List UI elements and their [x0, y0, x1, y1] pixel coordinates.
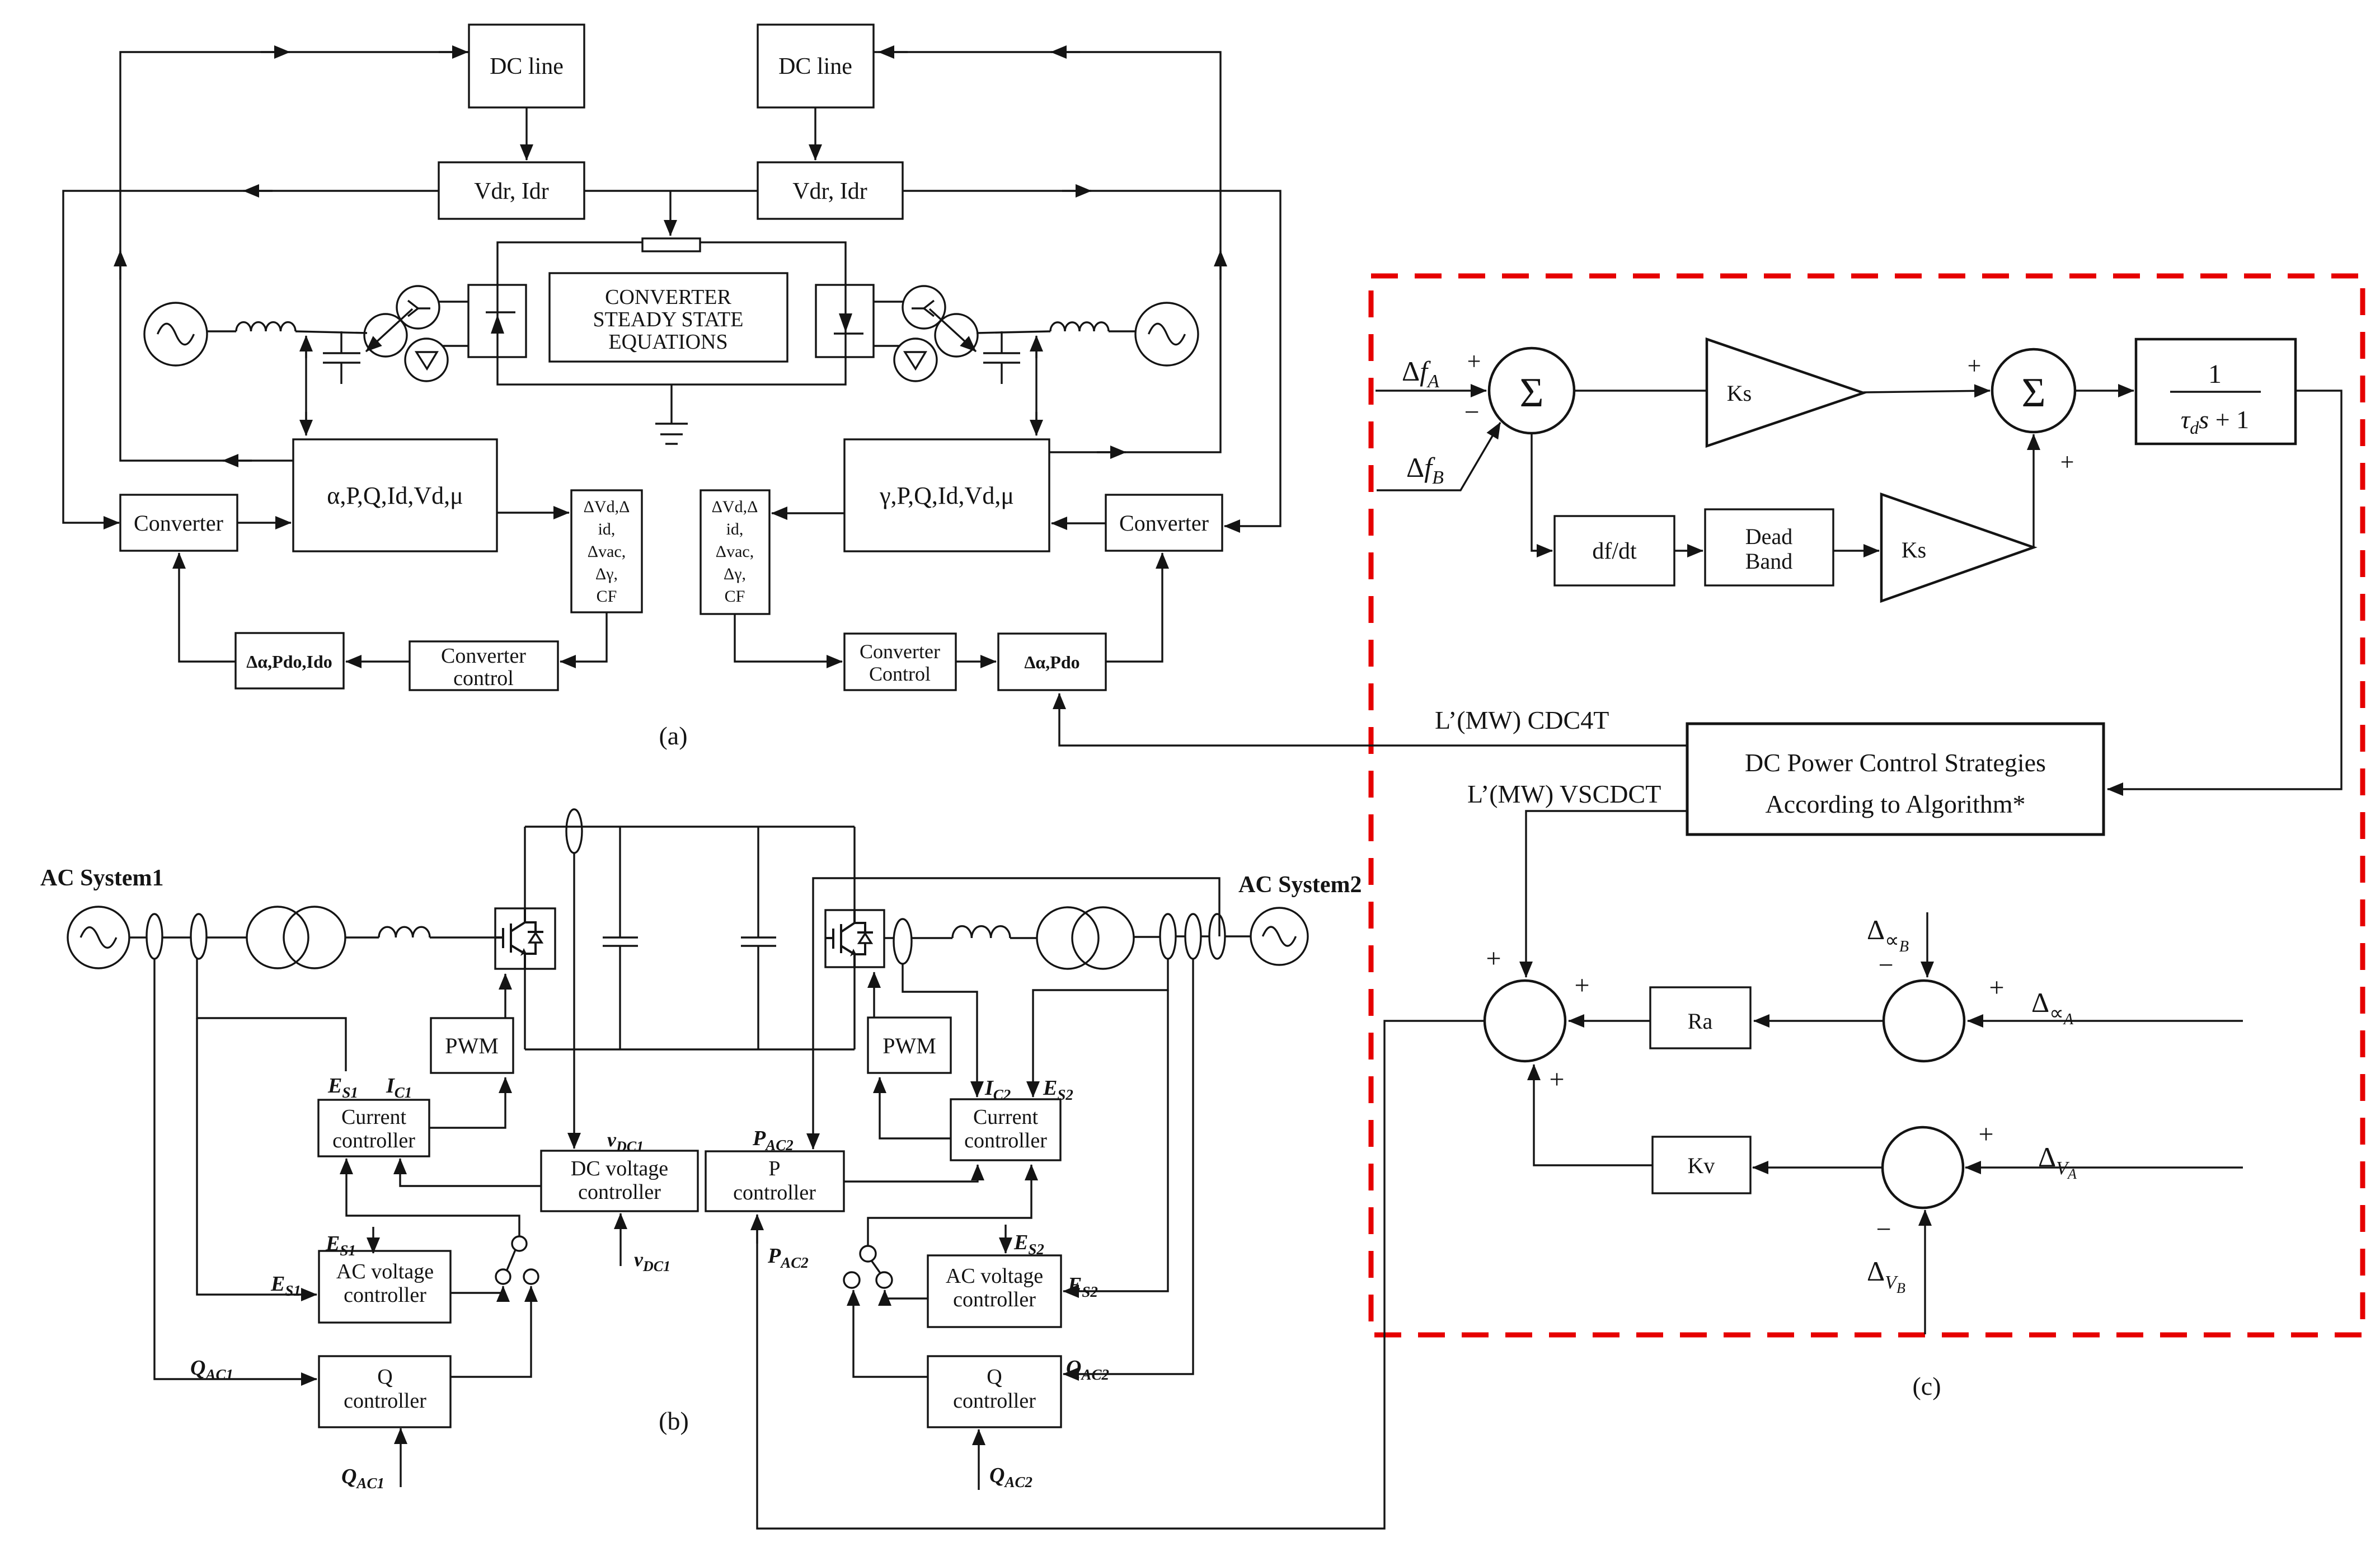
svg-text:Kv: Kv — [1688, 1153, 1715, 1178]
summing circle alpha inputs — [1884, 981, 1964, 1061]
wire S1 to gain Ks upper — [1574, 390, 1706, 391]
wire Current controller 1 to PWM 1 — [429, 1077, 505, 1128]
wire Q_AC1 from bus tap to Q controller 1 — [154, 959, 317, 1379]
block Vdr, Idr (rectifier side) — [439, 162, 584, 219]
svg-text:+: + — [1467, 348, 1481, 375]
svg-text:controller: controller — [964, 1129, 1047, 1152]
valve bridge 2 (thyristor, inverter) — [816, 285, 874, 357]
svg-text:+: + — [1968, 352, 1982, 379]
block Converter (rectifier) — [120, 495, 237, 551]
svg-text:Current: Current — [341, 1105, 407, 1129]
wire Current controller 2 to PWM 2 — [880, 1077, 951, 1138]
svg-text:PWM: PWM — [445, 1033, 499, 1058]
block AC voltage controller 1 — [319, 1251, 450, 1323]
wire E_S1 measurement to Current controller 1 — [197, 959, 346, 1071]
svg-text:ΔVd,Δ: ΔVd,Δ — [584, 498, 630, 516]
block Dead Band — [1705, 509, 1833, 585]
wire Q_AC1 reference stub — [400, 1428, 401, 1487]
block delta alpha,Pdo — [998, 634, 1106, 690]
wire VSC1 to DC bus top — [524, 827, 525, 908]
transformer T2 (section b) — [1037, 907, 1099, 969]
svg-text:Control: Control — [869, 663, 931, 685]
wire VSC2 to DC bus bottom — [853, 967, 855, 1049]
svg-text:1: 1 — [2208, 359, 2222, 389]
svg-text:AC voltage: AC voltage — [946, 1264, 1043, 1288]
wire bus 2 — [1176, 935, 1185, 937]
wire inductor to transformer — [295, 331, 367, 333]
svg-text:P: P — [768, 1157, 780, 1180]
wire bus 1 — [206, 936, 247, 938]
svg-text:id,: id, — [598, 520, 616, 538]
wire alpha-box feedback to DC line 1 — [120, 52, 469, 461]
outer converter equations box — [497, 242, 846, 385]
block delta Vd outputs (left) — [571, 490, 642, 612]
block DC Power Control Strategies — [1687, 724, 2104, 835]
wire delta Vd left to Converter control left — [560, 612, 607, 662]
svg-text:Ra: Ra — [1688, 1009, 1713, 1034]
block Converter control (left) — [410, 641, 558, 690]
summing junction S2 — [1992, 349, 2075, 432]
ground — [670, 385, 672, 424]
wire Converter 2 to gamma box — [1051, 522, 1106, 524]
block DC voltage controller — [541, 1151, 698, 1211]
wire Dead Band to gain Ks lower — [1833, 550, 1879, 551]
wire gamma box to delta Vd right — [772, 512, 844, 514]
svg-text:Δα,Pdo,Ido: Δα,Pdo,Ido — [246, 651, 332, 672]
svg-text:DC Power Control Strategies: DC Power Control Strategies — [1745, 748, 2046, 777]
svg-text:α,P,Q,Id,Vd,μ: α,P,Q,Id,Vd,μ — [327, 482, 463, 509]
block delta alpha,Pdo,Ido — [236, 633, 344, 688]
switch selector 2 wire to Current controller 2 — [868, 1165, 1031, 1246]
block Current controller 2 — [951, 1099, 1060, 1160]
block DC line (rectifier side) — [469, 25, 584, 107]
svg-text:+: + — [1989, 973, 2004, 1002]
block PWM 2 — [868, 1018, 951, 1073]
transformer T1 wye symbol — [418, 307, 430, 309]
gain Ks (upper) — [1707, 339, 1863, 446]
wire Converter Control right to delta alpha,Pdo — [956, 660, 996, 662]
valve bridge 1 (thyristor, rectifier) — [468, 285, 526, 357]
block Vdr, Idr (inverter side) — [758, 162, 903, 219]
node AC bus 2 double arrow to gamma box — [1035, 337, 1037, 432]
svg-text:Q: Q — [987, 1365, 1002, 1389]
svg-text:+: + — [2060, 448, 2074, 476]
wire gamma-box feedback to DC line 2 — [874, 52, 1220, 452]
wire Vdr,Idr 1 to Converter 1 — [63, 191, 439, 523]
svg-text:Band: Band — [1745, 549, 1792, 574]
CT ellipse bus1 tap B — [191, 914, 206, 959]
block P controller — [706, 1151, 844, 1211]
inductor L1 (section a) — [236, 322, 295, 331]
wire voltage summing circle to Kv — [1753, 1166, 1883, 1168]
switch 2 throw contact from Q controller 2 — [844, 1272, 860, 1288]
wire summing circle to bottom feedback — [757, 1021, 1485, 1529]
svg-text:+: + — [1574, 971, 1589, 1000]
svg-text:PWM: PWM — [882, 1033, 936, 1058]
block Converter Control (right) — [844, 634, 956, 690]
wire bus 2 to source 2 — [1225, 935, 1251, 937]
capacitor DC link C2 — [757, 827, 759, 937]
transformer T2 delta symbol — [905, 352, 926, 369]
switch 1 pole contact — [512, 1236, 527, 1251]
svg-text:Converter: Converter — [134, 510, 223, 536]
svg-text:controller: controller — [332, 1129, 415, 1152]
label E_S2 (stub above AC voltage controller 2) — [1004, 1225, 1006, 1253]
label E_S1 (stub above AC voltage controller 1) — [372, 1227, 374, 1253]
svg-text:L’(MW) CDC4T: L’(MW) CDC4T — [1435, 706, 1609, 734]
svg-text:L’(MW) VSCDCT: L’(MW) VSCDCT — [1467, 780, 1661, 808]
DC bus bottom — [525, 1048, 855, 1050]
block PWM 1 — [431, 1018, 513, 1073]
svg-text:DC line: DC line — [490, 54, 564, 79]
block Current controller 1 — [318, 1100, 429, 1156]
svg-text:According to Algorithm*: According to Algorithm* — [1765, 790, 2025, 818]
block gamma,P,Q,Id,Vd,mu — [844, 439, 1049, 551]
transformer T1 (section b) — [247, 907, 308, 968]
svg-text:CF: CF — [597, 587, 617, 606]
wire transformer 2 to valve 2 — [874, 301, 904, 302]
svg-text:CONVERTER: CONVERTER — [605, 285, 731, 309]
AC source 2 (section a) — [1135, 303, 1198, 365]
wire AC voltage controller 1 to switch 1 — [450, 1286, 503, 1293]
wire Ks upper to summing junction S2 — [1863, 391, 1990, 392]
svg-text:+: + — [1486, 944, 1501, 973]
wire bus 1 — [162, 936, 191, 938]
inductor phase reactor 2 — [952, 926, 1010, 938]
wire to inductor — [345, 936, 379, 938]
wire delta alpha_B input — [1926, 912, 1928, 977]
svg-text:+: + — [1549, 1065, 1564, 1094]
wire input delta f_A — [1376, 390, 1486, 391]
CT ellipse I_C2 measurement — [894, 919, 912, 964]
resistor DC line resistance — [642, 238, 700, 251]
block Converter (inverter) — [1106, 495, 1222, 551]
AC source 1 (section a) — [144, 303, 207, 365]
block Q controller 2 — [928, 1356, 1061, 1427]
wire S1 to df/dt — [1532, 433, 1552, 551]
svg-text:DC voltage: DC voltage — [571, 1157, 668, 1180]
wire inductor to VSC 1 — [430, 936, 495, 938]
wire E_S2 measurement to Current controller 2 — [1033, 959, 1168, 1097]
transformer T2 tap changer arrow — [930, 309, 976, 351]
wire E_S2 from bus tap to AC voltage controller 2 — [1063, 990, 1168, 1291]
svg-text:−: − — [1876, 1215, 1891, 1244]
svg-text:Δγ,: Δγ, — [724, 565, 746, 583]
transformer T2 wye symbol — [912, 307, 924, 309]
svg-text:Δvac,: Δvac, — [716, 542, 754, 561]
wire Q controller 2 to switch 2 — [853, 1290, 928, 1377]
block CONVERTER STEADY STATE EQUATIONS — [550, 273, 787, 362]
capacitor DC link C1 — [619, 827, 621, 937]
wire delta alpha_A input — [1968, 1020, 2243, 1021]
inductor L2 (section a) — [1050, 322, 1109, 331]
svg-text:−: − — [1464, 397, 1479, 427]
wire Q_AC2 from bus tap to Q controller 2 — [1063, 959, 1193, 1374]
svg-text:controller: controller — [344, 1283, 426, 1307]
wire source 2 to inductor 2 — [1109, 330, 1135, 332]
wire bus 1 — [129, 936, 147, 938]
switch selector 1 wire to Current controller 1 — [346, 1159, 519, 1236]
wire source to inductor — [207, 330, 236, 332]
wire df/dt to Dead Band — [1674, 550, 1703, 551]
svg-text:−: − — [1878, 950, 1893, 980]
wire PWM 2 to VSC 2 — [873, 972, 875, 1018]
svg-text:(a): (a) — [659, 721, 687, 750]
block Q controller 1 — [319, 1356, 450, 1427]
svg-text:Ks: Ks — [1902, 537, 1926, 562]
wire Ks lower to S2 — [2032, 434, 2034, 547]
DC bus top — [525, 826, 855, 827]
svg-text:Vdr, Idr: Vdr, Idr — [792, 179, 867, 204]
VSC converter 1 (IGBT valve) — [495, 908, 555, 969]
wire P controller to Current controller 2 — [844, 1165, 978, 1182]
wire delta V_A input — [1965, 1166, 2243, 1168]
wire lag block to DC power control strategies — [2107, 391, 2341, 789]
wire Q controller 1 to switch 1 — [450, 1286, 531, 1377]
svg-text:Σ: Σ — [2021, 370, 2045, 416]
svg-text:EQUATIONS: EQUATIONS — [608, 330, 727, 354]
wire delta Vd right to Converter Control right — [735, 614, 842, 662]
svg-text:Δγ,: Δγ, — [595, 565, 618, 583]
wire PWM 1 to VSC 1 — [504, 974, 506, 1018]
transformer T2 three-winding (section a) — [903, 286, 945, 329]
svg-text:controller: controller — [733, 1181, 816, 1204]
wire transformer to valve 1 — [438, 301, 468, 302]
switch 1 throw contact from Q controller 1 — [524, 1269, 538, 1284]
svg-text:control: control — [453, 667, 514, 690]
svg-text:γ,P,Q,Id,Vd,μ: γ,P,Q,Id,Vd,μ — [879, 482, 1014, 509]
svg-text:id,: id, — [726, 520, 744, 538]
wire Kv to summing circle — [1534, 1065, 1653, 1165]
VSC converter 2 (IGBT valve) — [825, 910, 884, 967]
wire DC line 2 to Vdr,Idr 2 — [814, 107, 816, 160]
wire input delta f_B — [1377, 423, 1500, 490]
node AC bus 1 double arrow to alpha box — [305, 337, 307, 432]
CT ellipse bus1 tap A — [147, 914, 162, 959]
svg-text:Converter: Converter — [860, 640, 940, 663]
CT ellipse bus2 tap A — [1160, 914, 1176, 959]
svg-text:Dead: Dead — [1745, 524, 1792, 549]
svg-text:Δα,Pdo: Δα,Pdo — [1024, 652, 1079, 672]
svg-text:+: + — [1978, 1119, 1993, 1149]
switch 2 throw contact from AC voltage controller 2 — [876, 1272, 892, 1288]
wire E_S1 from bus tap to AC voltage controller 1 — [197, 1018, 317, 1295]
transformer T1 three-winding (section a) — [397, 286, 439, 329]
svg-text:Ks: Ks — [1727, 381, 1752, 406]
svg-text:CF: CF — [725, 587, 745, 606]
CT ellipse bus2 tap C — [1209, 914, 1225, 959]
wire DC line 1 to Vdr,Idr 1 — [525, 107, 527, 160]
wire delta alpha,Pdo,Ido to Converter 1 — [179, 553, 236, 662]
wire P_AC2 measurement from AC bus 2 to P controller — [813, 878, 1219, 1149]
red dashed boundary of coordinated control — [1371, 276, 2363, 1335]
wire DC voltage controller to Current controller 1 — [400, 1159, 541, 1186]
svg-text:AC System2: AC System2 — [1238, 872, 1362, 898]
wire inductor to transformer 2 — [1010, 937, 1037, 939]
svg-text:controller: controller — [953, 1389, 1036, 1413]
wire I_C2 measurement to Current controller 2 — [903, 964, 977, 1097]
capacitor filter C1 (section a) — [340, 331, 342, 353]
svg-text:Vdr, Idr: Vdr, Idr — [474, 179, 549, 204]
inductor phase reactor 1 — [379, 927, 430, 937]
svg-text:Σ: Σ — [1519, 370, 1543, 416]
wire inductor 2 to transformer 2 — [977, 331, 1050, 333]
AC source 2 (section b) — [1251, 908, 1308, 965]
svg-text:Converter: Converter — [1119, 510, 1209, 536]
svg-text:(b): (b) — [659, 1407, 689, 1435]
wire alpha box to delta Vd left — [497, 512, 569, 513]
block alpha,P,Q,Id,Vd,mu — [293, 439, 497, 551]
wire VSC2 AC output — [884, 937, 894, 939]
block 1/(tau_d s + 1) — [2136, 339, 2295, 444]
CT ellipse bus2 tap B — [1185, 914, 1201, 959]
svg-text:controller: controller — [344, 1389, 426, 1413]
block gain Ra — [1650, 987, 1750, 1048]
wire bus 2 — [1201, 935, 1209, 937]
transformer T1 tap changer arrow — [366, 309, 412, 351]
svg-text:df/dt: df/dt — [1592, 538, 1637, 564]
svg-text:AC System1: AC System1 — [40, 865, 163, 891]
wire bus 2 — [1134, 936, 1160, 937]
svg-text:Q: Q — [377, 1365, 392, 1389]
capacitor filter C2 (section a) — [1001, 331, 1002, 353]
wire delta V_B input — [1924, 1210, 1926, 1334]
switch 2 pole contact — [860, 1246, 876, 1262]
wire alpha summing circle to Ra — [1754, 1020, 1884, 1021]
wire Converter control left to delta alpha,Pdo,Ido — [346, 660, 410, 662]
block AC voltage controller 2 — [928, 1255, 1061, 1327]
wire L'(MW) CDC4T to delta alpha,Pdo — [1059, 693, 1687, 746]
wire Converter 1 to alpha box — [237, 522, 291, 523]
switch 2 blade — [871, 1260, 881, 1274]
AC source 1 (section b) — [68, 907, 129, 968]
switch 1 blade — [507, 1250, 515, 1270]
wire v_DC1 reference stub — [619, 1213, 621, 1266]
svg-text:DC line: DC line — [778, 54, 852, 79]
svg-text:controller: controller — [578, 1180, 661, 1204]
wire VSC1 to DC bus bottom — [524, 969, 525, 1049]
switch 1 throw contact from AC voltage controller 1 — [496, 1269, 510, 1284]
wire AC voltage controller 2 to switch 2 — [885, 1290, 928, 1298]
svg-text:Converter: Converter — [441, 644, 526, 668]
wire v_DC1 measurement to DC voltage controller — [573, 853, 575, 1148]
block gain Kv — [1653, 1137, 1750, 1193]
wire Vdr,Idr 2 to Converter 2 — [903, 191, 1280, 526]
block DC line (inverter side) — [758, 25, 874, 107]
gain Ks (lower) — [1881, 494, 2034, 601]
wire L'(MW) VSCDCT to summing circle — [1526, 811, 1687, 977]
wire VSC2 to DC bus top — [853, 827, 855, 910]
summing circle voltage inputs — [1883, 1127, 1963, 1208]
svg-text:(c): (c) — [1912, 1372, 1941, 1400]
svg-text:controller: controller — [953, 1288, 1036, 1311]
svg-text:Δvac,: Δvac, — [588, 542, 626, 561]
wire Vdr,Idr junction to line resistance — [584, 190, 758, 191]
summing circle output node — [1485, 981, 1565, 1061]
svg-text:STEADY STATE: STEADY STATE — [593, 308, 744, 331]
wire Q_AC2 reference stub — [978, 1429, 979, 1490]
svg-text:Current: Current — [973, 1105, 1039, 1129]
wire S2 to lag block — [2075, 390, 2134, 391]
block delta Vd outputs (right) — [701, 490, 769, 614]
wire delta alpha,Pdo to Converter 2 — [1106, 553, 1162, 662]
svg-text:AC voltage: AC voltage — [336, 1260, 434, 1283]
svg-text:ΔVd,Δ: ΔVd,Δ — [712, 498, 758, 516]
block df/dt — [1555, 516, 1674, 585]
summing junction S1 — [1489, 348, 1574, 433]
CT ellipse on DC bus (v_DC1 measurement) — [566, 809, 582, 853]
wire Ra to summing circle — [1569, 1020, 1650, 1021]
transformer T1 delta symbol — [416, 352, 437, 369]
